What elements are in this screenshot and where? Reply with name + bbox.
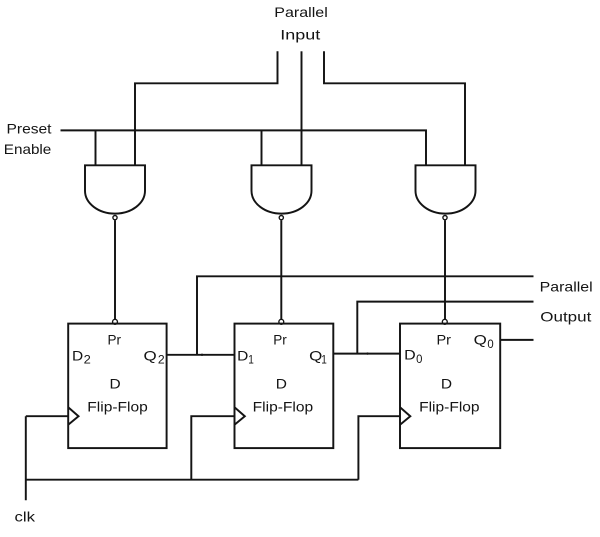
wire: clk to FF1 clock xyxy=(26,415,68,417)
svg-text:Pr: Pr xyxy=(273,331,287,347)
wire: clk riser to FF3 clock xyxy=(358,416,400,480)
wire: preset tap to U2 left input xyxy=(261,130,263,165)
wire: Q2 riser to parallel output line 1 xyxy=(197,276,534,355)
FF3 pin label D0 xyxy=(404,347,422,366)
wire: Q1 riser to parallel output line 2 xyxy=(357,302,533,354)
svg-text:Q: Q xyxy=(474,331,487,347)
wire: parallel input branch to U1 right input xyxy=(135,51,278,165)
svg-text:2: 2 xyxy=(158,355,165,367)
svg-text:Preset: Preset xyxy=(7,120,52,136)
svg-text:Input: Input xyxy=(280,27,320,43)
junction: Q2 node dot xyxy=(201,354,203,356)
FF2 clock triangle xyxy=(235,407,245,424)
svg-text:Pr: Pr xyxy=(437,331,452,347)
FF2 preset bubble xyxy=(279,319,284,324)
svg-text:D: D xyxy=(441,375,452,391)
svg-text:Flip-Flop: Flip-Flop xyxy=(87,399,148,415)
svg-text:0: 0 xyxy=(416,354,422,366)
wire: preset enable bus to U3 left input xyxy=(61,130,427,165)
wire: parallel input branch to U2 right input xyxy=(301,51,303,165)
svg-text:Pr: Pr xyxy=(108,331,122,347)
FF2 pin label D1 xyxy=(237,347,254,366)
svg-text:D: D xyxy=(404,347,416,363)
nand gate U3 xyxy=(416,165,476,219)
wire: FF1 Q2 output to FF2 D1 input xyxy=(167,354,235,356)
FF3 pin label Q0 xyxy=(474,331,494,351)
FF1 pin label Q2 xyxy=(144,347,165,366)
node: Parallel Input label xyxy=(274,4,328,43)
FF1 clock triangle xyxy=(68,407,78,424)
FF3 preset bubble xyxy=(442,319,447,324)
svg-text:Flip-Flop: Flip-Flop xyxy=(253,399,314,415)
flip-flop FF3 body xyxy=(400,324,500,449)
flip-flop FF1 body xyxy=(68,324,166,449)
nand gate U2 xyxy=(252,165,312,219)
wire: clk riser to FF2 clock xyxy=(191,416,234,480)
svg-text:Parallel: Parallel xyxy=(540,279,593,295)
svg-text:1: 1 xyxy=(321,355,327,367)
svg-text:Q: Q xyxy=(144,347,157,363)
FF3 clock triangle xyxy=(400,407,410,424)
wire: FF3 Q0 output to parallel output line 3 xyxy=(500,339,533,341)
svg-text:Output: Output xyxy=(540,309,591,325)
wire: U2 output to FF2 preset xyxy=(280,220,282,319)
svg-text:Enable: Enable xyxy=(4,141,52,157)
node: Parallel Output label xyxy=(540,279,593,325)
wire: U1 output to FF1 preset xyxy=(114,220,116,319)
svg-text:D: D xyxy=(237,347,248,363)
FF1 preset bubble xyxy=(113,319,118,324)
svg-text:D: D xyxy=(110,375,121,391)
flip-flop FF2 body xyxy=(235,324,334,449)
svg-text:clk: clk xyxy=(15,509,37,525)
wire: clk input vertical xyxy=(25,416,27,500)
svg-text:D: D xyxy=(72,347,83,363)
svg-text:2: 2 xyxy=(84,355,91,367)
wire: preset tap to U1 left input xyxy=(95,130,97,165)
svg-text:0: 0 xyxy=(487,339,493,351)
node: Preset Enable label xyxy=(4,120,52,157)
svg-text:1: 1 xyxy=(248,355,254,367)
FF2 pin label Q1 xyxy=(309,347,327,366)
svg-text:Parallel: Parallel xyxy=(274,4,328,20)
nand gate U1 xyxy=(85,165,145,219)
wire: clk bottom rail xyxy=(26,479,359,481)
junction: Q1 node dot xyxy=(366,352,368,354)
svg-text:D: D xyxy=(276,375,287,391)
wire: U3 output to FF3 preset xyxy=(444,220,446,319)
wire: parallel input branch to U3 right input xyxy=(324,51,465,165)
wire: FF2 Q1 output to FF3 D0 input xyxy=(333,353,400,355)
svg-text:Flip-Flop: Flip-Flop xyxy=(419,399,480,415)
FF1 pin label D2 xyxy=(72,347,91,366)
